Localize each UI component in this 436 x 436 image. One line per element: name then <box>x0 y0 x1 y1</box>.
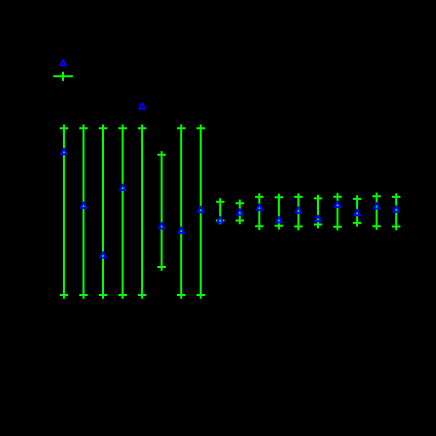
triangle marker column 15 <box>335 202 341 208</box>
triangle marker column 14 <box>315 216 321 222</box>
error bar column 16 <box>353 195 362 226</box>
error bar column 17 <box>372 193 381 230</box>
triangle marker column 7 <box>178 227 184 233</box>
triangle marker column 13 <box>295 207 301 213</box>
triangle marker column 11 <box>256 204 262 210</box>
isolated triangle top-left <box>60 60 66 65</box>
triangle marker column 8 <box>198 207 204 213</box>
triangle marker column 1 <box>61 149 67 155</box>
triangle marker column 4 <box>120 185 126 191</box>
triangle marker column 18 <box>393 206 399 212</box>
error bar column 15 <box>333 193 342 230</box>
triangle marker column 9 <box>217 217 223 223</box>
error bar column 18 <box>392 193 401 230</box>
triangle marker column 3 <box>100 252 106 258</box>
triangle marker column 6 <box>159 223 165 229</box>
error bar column 10 <box>236 200 245 225</box>
error bar column 2 <box>79 125 88 299</box>
error bar column 8 <box>196 125 205 299</box>
triangle marker column 5 <box>139 103 145 109</box>
error bar column 14 <box>314 195 323 229</box>
error bar column 1 <box>60 125 68 299</box>
error bar column 6 <box>157 151 166 271</box>
error bar column 9 <box>216 198 225 224</box>
error bar column 11 <box>255 193 263 230</box>
triangle marker column 17 <box>374 203 380 209</box>
error bar column 4 <box>118 125 127 299</box>
triangle marker column 10 <box>237 209 243 215</box>
triangle marker column 16 <box>354 210 360 216</box>
error bar column 12 <box>275 194 284 230</box>
error bar column 3 <box>99 125 108 299</box>
isolated point cross top-left <box>53 72 73 81</box>
triangle marker column 12 <box>276 217 282 223</box>
error bar column 7 <box>177 125 186 299</box>
error bar column 13 <box>294 193 303 230</box>
triangle marker column 2 <box>81 203 87 209</box>
error bar column 5 <box>138 125 147 299</box>
